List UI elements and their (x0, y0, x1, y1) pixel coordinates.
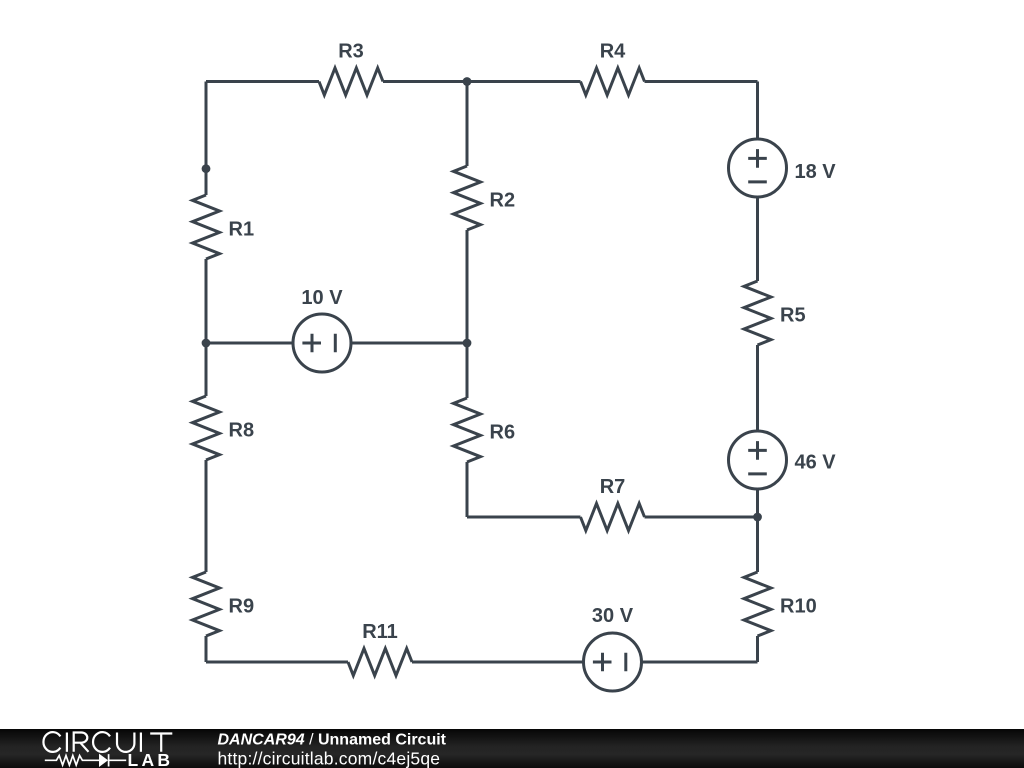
node junction dot mid-left (202, 339, 211, 348)
svg-text:R7: R7 (600, 476, 626, 498)
wire top-middle (383,81.5)-(580.5,81.5) (383, 80, 581, 83)
wire R7 right (644.5,517)-(757.5,517) (645, 516, 758, 519)
svg-text:R3: R3 (338, 41, 364, 63)
svg-text:10 V: 10 V (301, 287, 343, 309)
resistor R1 (193, 195, 220, 259)
resistor R11 (348, 649, 412, 676)
wire right rail bottom (757.5,636)-(757.5,662) (756, 636, 759, 662)
node junction dot left rail (202, 164, 211, 173)
resistor R6 (454, 398, 481, 462)
wire left rail upper (206,81.5)-(206,195) (205, 82, 208, 196)
wire top-right (644.5,81.5)-(757.5,81.5) (645, 80, 758, 83)
svg-text:18 V: 18 V (795, 161, 837, 183)
resistor R5 (744, 281, 771, 345)
wire middle rail top (467,81.5)-(467,166) (466, 82, 469, 167)
svg-text:R4: R4 (600, 41, 626, 63)
svg-text:R8: R8 (229, 420, 255, 442)
wire bottom left (206,662)-(348,662) (206, 661, 348, 664)
CircuitLab logo CIRCUIT wordmark (43, 732, 172, 752)
wire bottom middle (412,662)-(583.5,662) (412, 661, 584, 664)
voltage source V 46V (729, 431, 837, 489)
voltage source V 18V (729, 139, 837, 197)
resistor R10 (744, 572, 771, 636)
resistor R3 (319, 68, 383, 95)
wire mid horizontal right (351,343)-(467,343) (351, 342, 467, 345)
svg-text:30 V: 30 V (592, 605, 634, 627)
wire left rail bottom (206,636)-(206,662) (205, 636, 208, 662)
CircuitLab logo resistor-diode glyph (45, 754, 126, 766)
resistor R7 (581, 504, 645, 531)
wire right rail (757.5,489)-(757.5,572) (756, 489, 759, 572)
voltage source V 10V (293, 287, 351, 372)
resistor R4 (581, 68, 645, 95)
svg-text:LAB: LAB (128, 750, 174, 768)
svg-text:DANCAR94 / Unnamed Circuit: DANCAR94 / Unnamed Circuit (218, 731, 447, 748)
wire top-left (206,81.5)-(319,81.5) (206, 80, 319, 83)
svg-text:R9: R9 (229, 596, 255, 618)
svg-text:R5: R5 (780, 305, 806, 327)
wire right rail (757.5,345)-(757.5,431) (756, 345, 759, 431)
node junction dot right rail (753, 513, 762, 522)
wire middle rail mid (467,230)-(467,398) (466, 230, 469, 398)
wire mid horizontal left (206,343)-(293,343) (206, 342, 293, 345)
wire right rail (757.5,197)-(757.5,281) (756, 197, 759, 281)
resistor R9 (193, 572, 220, 636)
svg-text:R10: R10 (780, 596, 817, 618)
wire R7 left (467,517)-(580.5,517) (467, 516, 581, 519)
svg-text:R11: R11 (362, 621, 398, 643)
wire bottom right (641.5,662)-(757.5,662) (642, 661, 758, 664)
wire right rail top (757.5,81.5)-(757.5,139) (756, 82, 759, 140)
svg-text:http://circuitlab.com/c4ej5qe: http://circuitlab.com/c4ej5qe (218, 749, 441, 768)
footer bar (0, 729, 1024, 768)
wire left rail mid (206,259)-(206,396) (205, 259, 208, 396)
wire middle rail bottom (467,462)-(467,517) (466, 462, 469, 517)
svg-text:R6: R6 (490, 422, 516, 444)
svg-text:R2: R2 (490, 190, 516, 212)
resistor R8 (193, 396, 220, 460)
voltage source V 30V (584, 605, 642, 691)
node junction dot top middle (463, 77, 472, 86)
resistor R2 (454, 166, 481, 230)
svg-text:46 V: 46 V (795, 452, 837, 474)
node junction dot mid-middle (463, 339, 472, 348)
svg-text:R1: R1 (229, 219, 255, 241)
wire left rail lower (206,460)-(206,572) (205, 460, 208, 572)
